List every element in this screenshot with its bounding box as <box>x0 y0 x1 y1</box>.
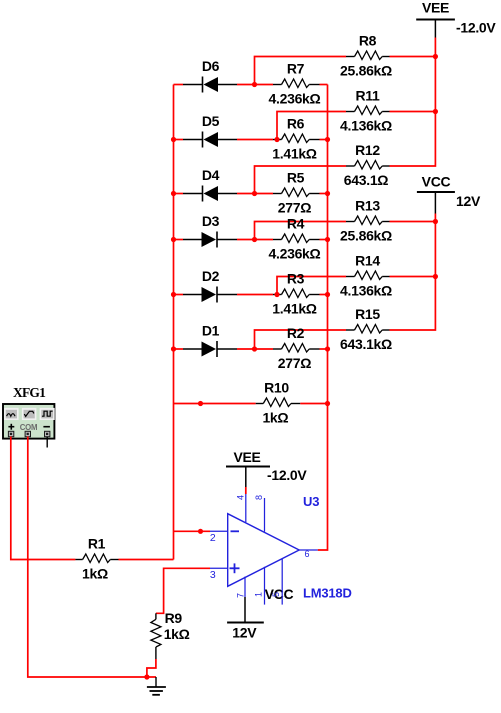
wire R14 right to rail <box>390 276 436 278</box>
wire summing node to pin 2 <box>174 530 211 532</box>
power VCC supply top <box>417 174 481 214</box>
wire VCC rail to R15 <box>390 214 436 331</box>
wire D1 anode lead <box>174 348 184 350</box>
wire D4 to R5 <box>237 193 273 195</box>
wire R15 left drop to D1 junction <box>255 330 347 349</box>
wire R11 right to rail <box>390 111 436 113</box>
svg-text:2: 2 <box>210 532 216 544</box>
wire R2 right to rail <box>320 348 328 350</box>
wire VEE to pin 4 <box>245 487 247 494</box>
svg-text:R9: R9 <box>165 610 183 626</box>
resistor R14 4.136kΩ <box>340 252 392 298</box>
wire right rail (op-amp output feedback) <box>318 85 328 551</box>
svg-text:R7: R7 <box>287 60 305 76</box>
resistor R6 1.41kΩ <box>272 115 319 161</box>
wire R11 left drop to D5 junction <box>277 112 346 140</box>
wire R14 left drop to D2 junction <box>277 277 346 295</box>
wire VEE rail to R12 <box>390 38 436 167</box>
svg-text:12V: 12V <box>456 193 481 209</box>
resistor R11 4.136kΩ <box>340 87 392 133</box>
svg-text:12V: 12V <box>232 625 257 641</box>
op-amp U3 LM318D <box>210 494 352 605</box>
resistor R12 643.1Ω <box>344 142 390 188</box>
svg-text:6: 6 <box>304 549 309 559</box>
wire R6 right to rail <box>320 139 328 141</box>
power VCC supply at op-amp <box>227 586 293 641</box>
resistor R4 4.236kΩ <box>269 215 321 261</box>
svg-text:R12: R12 <box>355 142 380 158</box>
ground <box>147 677 166 695</box>
svg-text:R10: R10 <box>264 379 289 395</box>
resistor R5 277Ω <box>273 169 320 215</box>
wire D5 anode lead <box>174 139 184 141</box>
diode D3 <box>183 213 237 248</box>
svg-text:25.86kΩ: 25.86kΩ <box>340 228 392 244</box>
svg-text:D4: D4 <box>202 167 220 183</box>
svg-text:D1: D1 <box>202 322 220 338</box>
wire R1 to left rail <box>119 559 174 561</box>
wire R10 right <box>300 403 327 405</box>
wire R13 left drop to D3 junction <box>255 222 347 240</box>
svg-text:VCC: VCC <box>422 174 451 190</box>
wire R10 left <box>174 403 256 405</box>
svg-text:1kΩ: 1kΩ <box>82 566 108 582</box>
svg-text:-12.0V: -12.0V <box>267 467 307 483</box>
wire D3 to R4 <box>237 239 273 241</box>
svg-text:R6: R6 <box>287 115 305 131</box>
wire D6 anode lead <box>174 84 184 86</box>
svg-text:R3: R3 <box>287 270 305 286</box>
wire D1 to R2 <box>237 348 273 350</box>
wire R4 right to rail <box>320 239 328 241</box>
svg-text:-12.0V: -12.0V <box>456 20 496 36</box>
wire XFG1 plus to R1 <box>11 437 76 560</box>
svg-text:COM: COM <box>20 423 38 432</box>
svg-text:D2: D2 <box>202 268 220 284</box>
svg-text:643.1Ω: 643.1Ω <box>344 172 389 188</box>
svg-text:VEE: VEE <box>233 449 260 465</box>
svg-text:R15: R15 <box>355 306 380 322</box>
svg-text:25.86kΩ: 25.86kΩ <box>340 63 392 79</box>
resistor R8 25.86kΩ <box>340 32 392 78</box>
svg-text:R8: R8 <box>359 32 377 48</box>
svg-text:R5: R5 <box>287 169 305 185</box>
svg-text:D6: D6 <box>202 58 220 74</box>
wire R3 right to rail <box>320 294 328 296</box>
wire D3 anode lead <box>174 239 184 241</box>
diode D5 <box>183 113 237 148</box>
svg-text:XFG1: XFG1 <box>13 385 46 400</box>
svg-text:277Ω: 277Ω <box>278 355 311 371</box>
wire D2 to R3 <box>237 294 273 296</box>
resistor R3 1.41kΩ <box>272 270 319 316</box>
wire D4 anode lead <box>174 193 184 195</box>
resistor R15 643.1kΩ <box>340 306 392 352</box>
svg-text:4.236kΩ: 4.236kΩ <box>269 91 321 107</box>
resistor R2 277Ω <box>273 325 320 371</box>
wire D5 to R6 <box>237 139 273 141</box>
wire R8 right to rail <box>390 56 436 58</box>
function generator XFG1 <box>3 385 55 448</box>
resistor R9 1k <box>151 610 190 659</box>
svg-text:1.41kΩ: 1.41kΩ <box>272 146 317 162</box>
svg-text:R4: R4 <box>287 215 305 231</box>
diode D4 <box>183 167 237 202</box>
wire D2 anode lead <box>174 294 184 296</box>
svg-text:4.236kΩ: 4.236kΩ <box>269 246 321 262</box>
wire R8 left drop to D6 junction <box>255 57 347 85</box>
wire D6 to R7 <box>237 84 273 86</box>
svg-text:643.1kΩ: 643.1kΩ <box>340 336 392 352</box>
svg-text:5: 5 <box>271 592 281 597</box>
diode D6 <box>183 58 237 93</box>
svg-text:D3: D3 <box>202 213 220 229</box>
wire R12 left drop to D4 junction <box>255 166 347 194</box>
svg-text:U3: U3 <box>303 494 319 509</box>
wire R13 right to rail <box>390 221 436 223</box>
svg-text:VEE: VEE <box>422 0 449 15</box>
diode D2 <box>183 268 237 303</box>
resistor R1 1k <box>75 535 118 581</box>
svg-text:R11: R11 <box>355 87 380 103</box>
svg-text:277Ω: 277Ω <box>278 200 311 216</box>
svg-text:1kΩ: 1kΩ <box>262 410 288 426</box>
resistor R10 1k <box>256 379 301 425</box>
svg-text:R14: R14 <box>355 252 380 268</box>
svg-text:1kΩ: 1kΩ <box>164 626 190 642</box>
wire XFG1 COM to ground <box>28 437 156 678</box>
wire R5 right to rail <box>320 193 328 195</box>
svg-text:LM318D: LM318D <box>303 586 352 601</box>
diode D1 <box>183 322 237 357</box>
svg-text:4: 4 <box>235 495 245 500</box>
svg-text:R2: R2 <box>287 325 305 341</box>
wire R7 right to rail <box>320 84 328 86</box>
svg-text:D5: D5 <box>202 113 220 129</box>
power VEE supply at op-amp <box>226 449 307 487</box>
svg-text:R1: R1 <box>88 535 106 551</box>
svg-text:7: 7 <box>235 593 245 598</box>
svg-text:4.136kΩ: 4.136kΩ <box>340 283 392 299</box>
svg-text:8: 8 <box>254 495 264 500</box>
svg-text:4.136kΩ: 4.136kΩ <box>340 118 392 134</box>
resistor R7 4.236kΩ <box>269 60 321 106</box>
svg-text:1: 1 <box>253 592 263 597</box>
wire left rail (summing node) <box>173 85 175 560</box>
svg-text:R13: R13 <box>355 197 380 213</box>
svg-text:1.41kΩ: 1.41kΩ <box>272 301 317 317</box>
svg-text:3: 3 <box>210 569 216 581</box>
wire R9 bottom to ground <box>147 659 156 677</box>
wire pin 3 to R9 <box>156 568 210 613</box>
power VEE supply top <box>416 0 496 38</box>
resistor R13 25.86kΩ <box>340 197 392 243</box>
